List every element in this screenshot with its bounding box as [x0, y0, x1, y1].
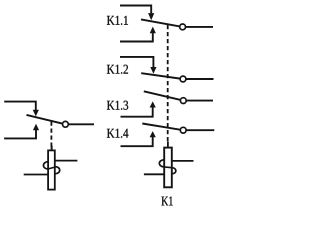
contact K1.3: NO fixed contact arrow — [150, 101, 156, 107]
contact terminal circle of left contact — [63, 121, 69, 127]
coil K1 winding: upper lead (right side) — [172, 160, 194, 162]
coil K1 winding: right half-turn loop — [172, 168, 176, 174]
contact K1.1: NO fixed contact arrow — [150, 27, 156, 34]
link solid stub to coil K1 — [167, 142, 169, 148]
left relay coil winding: right half-turn loop — [55, 167, 59, 174]
left relay coil core rectangle — [48, 150, 55, 189]
relay coil K1 core rectangle — [164, 148, 172, 188]
coil K1 winding: crossing segment — [164, 166, 172, 169]
coil K1 winding: lower lead (left side) — [144, 173, 165, 175]
wire: left contact top lead — [4, 102, 36, 111]
contact K1.3: terminal circle — [180, 98, 186, 104]
contact K1.3: common lead wire — [183, 100, 213, 102]
contact K1.2: top lead wire — [120, 57, 153, 68]
left relay coil winding: lower lead (left side) — [24, 174, 49, 176]
label K1.2 — [107, 65, 128, 74]
left relay coil winding: crossing segment — [48, 167, 56, 169]
wire: left contact bottom lead — [4, 130, 36, 139]
fixed contact arrow (NC throw) of left contact — [33, 110, 39, 117]
contact K1.1: bottom lead wire — [120, 33, 153, 41]
contact K1.1: common lead wire — [183, 26, 213, 28]
fixed contact arrow (NO throw) of left contact — [33, 124, 39, 131]
contact K1.4: common lead wire — [183, 129, 214, 131]
label K1 — [161, 197, 172, 206]
mechanical link dashed line (relay K1) — [167, 25, 169, 142]
contact K1.4: bottom lead wire — [121, 137, 153, 146]
contact K1.3: bottom lead wire — [121, 107, 153, 116]
contact K1.2: NC fixed contact arrow — [150, 67, 156, 74]
contact K1.1: NC fixed contact arrow — [148, 13, 154, 20]
contact K1.2: common lead wire — [183, 78, 214, 80]
label K1.4 — [107, 129, 129, 138]
link solid stub to left coil — [51, 146, 53, 151]
contact K1.4: NO fixed contact arrow — [150, 131, 156, 137]
contact K1.1: moving lever — [141, 19, 183, 27]
contact K1.2: moving lever — [141, 73, 183, 79]
wire: left contact common lead — [65, 123, 94, 125]
coil K1 winding: left half-turn loop — [159, 160, 164, 167]
contact K1.4: terminal circle — [180, 127, 186, 133]
left relay coil winding: left half-turn loop — [43, 162, 48, 169]
contact K1.1: terminal circle — [180, 24, 186, 30]
contact K1.4: moving lever — [142, 124, 183, 131]
contact K1.1: top lead wire — [120, 6, 151, 14]
left relay coil winding: upper lead (right side) — [55, 160, 78, 162]
label K1.3 — [107, 101, 128, 110]
label K1.1 — [107, 16, 128, 25]
contact K1.2: terminal circle — [180, 76, 186, 82]
moving contact lever of left contact — [27, 115, 66, 124]
mechanical link dashed line (left relay) — [50, 122, 52, 147]
contact K1.3: moving lever — [144, 91, 184, 100]
